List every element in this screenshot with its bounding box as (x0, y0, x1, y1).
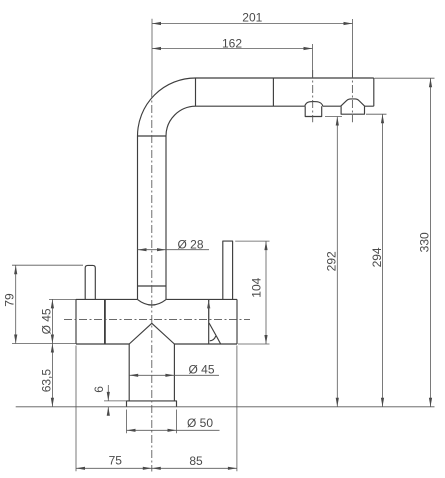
riser pipe left edge (137, 136, 139, 299)
dim 85 right extension (236, 346, 238, 472)
column left edge (128, 344, 130, 401)
svg-text:201: 201 (242, 10, 262, 24)
arrow 292 top (336, 117, 339, 126)
riser bend seam (138, 135, 167, 137)
centerlines (64, 70, 352, 472)
arrow d45 column right (165, 374, 174, 377)
arrow 162 right (304, 47, 313, 50)
base plane line (16, 406, 435, 408)
svg-text:330: 330 (417, 232, 431, 252)
arrow 330 bottom (429, 398, 432, 407)
right lever detail slant (209, 323, 221, 344)
bend inner arc (166, 106, 196, 136)
base flange (127, 401, 177, 407)
dim 104 top extension (235, 240, 269, 242)
arrow 6 bottom (107, 407, 110, 416)
dim 162 line (152, 48, 313, 50)
arrow 63.5 top (51, 344, 54, 353)
arrow 292 bottom (336, 398, 339, 407)
arrow d28 right (157, 248, 166, 251)
dim d50 left extension (126, 410, 128, 434)
svg-text:Ø 45: Ø 45 (39, 308, 53, 334)
dim 294 top extension (366, 113, 387, 115)
arrow d45 column left (129, 374, 138, 377)
riser pipe right edge (165, 136, 167, 299)
outlet bump 2 body (341, 106, 364, 114)
body top right segment (166, 298, 237, 300)
body bottom right segment (174, 343, 237, 345)
arrow 79 top (14, 265, 17, 274)
dim d45 body line (51, 299, 53, 343)
arrow 294 top (381, 114, 384, 123)
outlet bump 1 body (305, 106, 322, 116)
dim 79/d45 bottom extension (12, 343, 76, 345)
svg-text:75: 75 (109, 453, 123, 467)
dim d28 line (138, 249, 210, 251)
dim 104 line (265, 241, 267, 344)
dim 104 bottom extension (238, 343, 270, 345)
dim 294 line (382, 114, 384, 407)
arrow body seam up (207, 299, 210, 321)
body horizontal centerline (64, 319, 250, 321)
dim 6 top shaft (107, 385, 109, 401)
arrow 104 bottom (264, 335, 267, 344)
svg-text:294: 294 (370, 247, 384, 267)
arrow d50 left (127, 429, 136, 432)
svg-text:162: 162 (222, 37, 242, 51)
dim 201/162 left extension (151, 19, 153, 90)
dim 330 top extension (375, 77, 435, 79)
arrow 201 right (344, 22, 353, 25)
outlet bump 2 dome (341, 99, 365, 106)
centre cone (129, 323, 174, 344)
body seam left (104, 299, 106, 344)
svg-text:104: 104 (250, 277, 264, 297)
dim d45 column line (129, 374, 219, 376)
riser saddle arc (137, 299, 166, 305)
column right edge (173, 344, 175, 401)
arrow 201 left (152, 22, 161, 25)
svg-text:6: 6 (92, 386, 106, 393)
bend-to-pipe seam (195, 78, 197, 106)
outlet bump 1 centerline (312, 70, 314, 122)
arrow 75 right / 85 left pair (143, 467, 161, 470)
dim d50 right extension (176, 410, 178, 434)
body left end (75, 299, 77, 344)
spout pipe bottom segments (196, 105, 374, 107)
outlet bump 1 dome (305, 102, 323, 107)
dim 292 line (336, 117, 338, 407)
arrow 85 right (228, 467, 237, 470)
bend outer arc (138, 78, 196, 136)
arrow d28 left (138, 248, 147, 251)
arrow 6 top (107, 392, 110, 401)
right lever detail arc (210, 336, 216, 341)
dim 75 left extension (75, 346, 77, 472)
dim 162 right extension (312, 44, 314, 78)
dim 79 top extension (12, 264, 83, 266)
left handle rod (85, 265, 95, 299)
svg-text:63,5: 63,5 (39, 369, 53, 393)
dim 63.5 line (51, 344, 53, 407)
arrow 79 bottom (14, 335, 17, 344)
dim 292 top extension (325, 116, 342, 118)
arrow 294 bottom (381, 398, 384, 407)
svg-text:85: 85 (189, 454, 203, 468)
svg-text:Ø 50: Ø 50 (187, 416, 213, 430)
dim d45 body top extension (49, 298, 76, 300)
dim 6 extension (104, 400, 127, 402)
arrow 330 top (429, 78, 432, 87)
right handle rod (223, 241, 233, 299)
body right end (236, 299, 238, 344)
spout head seam (272, 78, 274, 106)
dim 330 line (430, 78, 432, 407)
svg-text:Ø 28: Ø 28 (178, 238, 204, 252)
body top left segment (76, 298, 137, 300)
dim 201 right extension (352, 19, 354, 78)
object outlines (76, 78, 374, 407)
dim 79 line (15, 265, 17, 343)
arrow 162 left (152, 47, 161, 50)
dim 6 bottom shaft (107, 407, 109, 414)
spout pipe top (196, 77, 374, 79)
dim 201 line (152, 23, 353, 25)
arrow 75 left (76, 467, 85, 470)
riser joint line (138, 285, 167, 287)
arrow 104 top (264, 241, 267, 250)
arrow 63.5 bottom (51, 398, 54, 407)
arrow d50 right (168, 429, 177, 432)
main vertical centerline (151, 90, 153, 472)
outlet bump 2 centerline (351, 70, 353, 122)
arrow d45 body bottom (51, 335, 54, 344)
body bottom left segment (76, 343, 129, 345)
body seam right (208, 299, 210, 344)
svg-text:Ø 45: Ø 45 (189, 362, 215, 376)
arrow d45 body top (51, 299, 54, 308)
dim d50 line (127, 429, 220, 431)
spout head end (373, 78, 375, 106)
dim 75/85 line (76, 467, 237, 469)
svg-text:79: 79 (3, 293, 17, 307)
svg-text:292: 292 (325, 251, 339, 271)
